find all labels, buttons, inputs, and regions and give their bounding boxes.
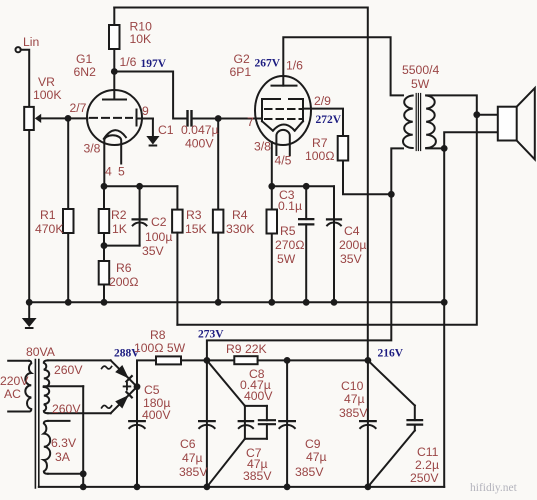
diode D2 lower rectifier [111,387,137,414]
transformer OPT primary winding [403,96,413,149]
svg-text:R1: R1 [40,208,56,222]
svg-text:R4: R4 [232,208,248,222]
node C2 top [136,183,143,190]
svg-text:385V: 385V [243,469,272,483]
capacitor C7 47u [239,406,267,439]
svg-text:3/8: 3/8 [254,140,271,154]
capacitor C11 2.2u with diagonals [368,360,422,487]
svg-text:VR: VR [38,75,55,89]
svg-text:267V: 267V [255,58,281,70]
svg-text:2.2µ: 2.2µ [415,458,439,472]
ground symbol at bus left [22,302,37,328]
svg-text:6N2: 6N2 [74,65,97,79]
node OPT secondary bottom [441,145,448,152]
node R4 ground [215,299,222,306]
resistor R6 200ohm [99,246,110,303]
svg-text:220V: 220V [0,374,29,388]
svg-text:R2: R2 [111,208,127,222]
triode U1 G1 6N2 envelope [87,90,142,145]
svg-text:80VA: 80VA [26,345,56,359]
svg-text:R6: R6 [116,261,132,275]
svg-text:C1: C1 [158,123,174,137]
wire G2 pin 2/9 to R7 [303,109,343,136]
node 273V [204,357,211,364]
G1 pin 9 internal shield bar [137,110,153,126]
wire node 1/6 of G1 to C1 [114,72,186,119]
capacitor C9 47u [279,360,295,487]
capacitor C2 100u [133,186,147,245]
svg-text:400V: 400V [185,137,214,151]
svg-text:260V: 260V [52,402,81,416]
svg-text:C10: C10 [341,379,364,393]
capacitor C4 200u [327,186,341,302]
svg-text:47µ: 47µ [182,451,203,465]
capacitor C5 180u [129,387,145,487]
wire R2/C2 bottom join [104,245,140,247]
node C1 out / R4 / G2 grid [215,115,222,122]
node C10 rail [365,484,372,491]
pentode U2 G2 6P1 envelope [255,76,311,145]
svg-text:10K: 10K [130,32,152,46]
T1 secondary 260V lower winding [44,387,49,413]
OPT core [416,94,420,151]
svg-text:+: + [122,377,132,396]
svg-text:47µ: 47µ [306,450,327,464]
node C4 ground [331,299,338,306]
svg-text:3/8: 3/8 [84,142,101,156]
node G1 grid / R1 [65,115,72,122]
resistor R9 22K [207,356,287,364]
resistor R10 [109,8,120,72]
svg-text:2/9: 2/9 [314,94,331,108]
speaker LS [498,88,535,159]
wire G2 cathode node row [272,185,334,187]
G1 anode [103,72,126,100]
node G1 cathode pins 4-5 [101,183,108,190]
wire speaker plus lead [477,114,498,116]
node C6 rail [204,484,211,491]
wire B+ riser to 273V node [207,194,391,360]
svg-text:G2: G2 [234,52,250,66]
svg-text:15K: 15K [185,222,207,236]
svg-text:AC: AC [4,387,21,401]
wire 260V bottom lead with tilde [48,405,112,413]
svg-text:2/7: 2/7 [70,101,87,115]
svg-text:5: 5 [118,165,125,179]
svg-text:C5: C5 [144,383,160,397]
svg-text:400V: 400V [142,408,171,422]
G2 grids (dashed) [265,109,301,119]
capacitor C8 0.47u [259,406,275,439]
node G1 plate junction [111,68,118,75]
wire OPT secondary bottom to speaker minus [426,132,498,148]
wire R9 output to 216V node [287,359,368,361]
svg-text:35V: 35V [142,244,165,258]
node heater/CT join [80,470,87,477]
svg-text:C4: C4 [344,224,360,238]
resistor R3 15K feedback [172,186,183,324]
wire bottom ground rail [39,486,444,488]
T1 heater 6.3V winding [44,421,83,474]
wire wiper node to G1 grid [68,117,88,119]
node bus ground left [26,299,33,306]
capacitor C10 47u [360,360,376,487]
node OPT primary bottom / R7 [388,191,395,198]
resistor R1 470K [63,118,74,302]
svg-text:hifidiy.net: hifidiy.net [470,482,518,494]
svg-text:385V: 385V [179,465,208,479]
potentiometer VR 100K [24,107,68,302]
node R5 ground [268,299,275,306]
svg-text:4: 4 [105,165,112,179]
node speaker plus [473,111,480,118]
G2 beam-forming box [262,99,303,131]
svg-text:272V: 272V [316,114,342,126]
node R6 ground [101,299,108,306]
svg-text:200Ω: 200Ω [109,275,138,289]
resistor R8 100ohm 5W [156,356,207,364]
node secondary return on bus [441,299,448,306]
svg-text:385V: 385V [339,406,368,420]
svg-text:6P1: 6P1 [230,65,252,79]
svg-text:9: 9 [142,104,149,118]
svg-text:7: 7 [247,115,254,129]
svg-text:4/5: 4/5 [275,154,292,168]
node rectifier plus 288V [134,383,141,390]
node 216V [365,357,372,364]
wire OPT primary bottom to B+ node [391,148,403,194]
G2 cathode [276,130,289,155]
svg-text:R7: R7 [312,136,328,150]
svg-text:216V: 216V [378,348,404,360]
wire rectifier output 288V riser [137,360,156,386]
T1 secondary 260V upper winding [44,360,49,387]
svg-text:100µ: 100µ [145,230,172,244]
node C5 rail [134,484,141,491]
node R2/R6 join [101,242,108,249]
svg-text:Lin: Lin [23,35,39,49]
capacitors C7/C8 parallel block diagonals [207,360,245,487]
transformer OPT secondary winding [426,96,436,149]
wire feedback line to speaker node [177,115,476,325]
svg-text:330K: 330K [226,222,254,236]
wire G1 cathode node [104,185,177,187]
svg-text:100Ω: 100Ω [305,149,334,163]
svg-text:385V: 385V [295,465,324,479]
node CT rail [80,484,87,491]
diode D1 upper rectifier [111,360,137,386]
wire ground bus [29,301,444,303]
svg-text:5500/4: 5500/4 [402,63,439,77]
svg-text:5W: 5W [411,77,430,91]
svg-text:0.1µ: 0.1µ [278,199,302,213]
transformer T1 primary 220V winding [8,361,31,412]
node C9 rail [284,484,291,491]
svg-text:250V: 250V [410,471,439,485]
node C3 top [303,183,310,190]
svg-text:G1: G1 [76,52,92,66]
svg-text:C2: C2 [151,215,167,229]
resistor R2 1K [99,186,110,245]
svg-text:C6: C6 [180,437,196,451]
svg-text:100K: 100K [33,88,61,102]
G1 grid (dashed) [90,117,132,119]
wire C1 to G2 grid pin 7 [192,118,263,120]
svg-text:1/6: 1/6 [120,55,137,69]
svg-text:C11: C11 [417,445,439,459]
resistor R4 330K [213,119,224,303]
svg-text:R8: R8 [150,328,166,342]
resistor R5 270ohm [267,186,278,302]
wire secondary ground return [443,148,445,487]
svg-text:273V: 273V [198,329,224,341]
capacitor C6 47u [199,360,215,487]
node G2 cathode 3/8 [268,183,275,190]
svg-text:1/6: 1/6 [286,59,303,73]
capacitor C1 [188,111,192,125]
input terminal Lin [16,47,30,107]
ground at G1 pin 9 [146,119,159,146]
svg-text:47µ: 47µ [344,392,365,406]
svg-text:R5: R5 [280,224,296,238]
wire 260V top lead with tilde [48,360,112,368]
node C3 ground [303,299,310,306]
T1 center tap lead [44,386,83,487]
svg-text:1K: 1K [112,222,127,236]
resistor R7 100ohm [338,136,392,194]
svg-text:270Ω: 270Ω [275,238,304,252]
svg-text:0.047µ: 0.047µ [181,123,219,137]
G2 anode and lead to 1/6 node [272,37,404,95]
svg-text:470K: 470K [35,222,63,236]
wire B+ top rail from R10 top to 216V column [114,8,367,361]
svg-text:35V: 35V [340,252,363,266]
svg-text:400V: 400V [244,389,273,403]
svg-text:3A: 3A [55,450,71,464]
G1 cathode [104,130,126,186]
node R1 ground [65,299,72,306]
svg-text:6.3V: 6.3V [51,436,77,450]
svg-text:197V: 197V [141,58,167,70]
node R9 out [284,357,291,364]
svg-text:5W: 5W [277,252,296,266]
svg-text:200µ: 200µ [339,238,366,252]
svg-text:R3: R3 [186,208,202,222]
wire OPT secondary top to speaker plus [426,95,477,114]
T1 core [35,360,38,489]
capacitor C3 0.1u [299,186,313,302]
wire G2 pin 3/8 cathode lead down [271,142,273,186]
svg-text:260V: 260V [54,363,83,377]
svg-text:C9: C9 [305,437,321,451]
svg-text:R9 22K: R9 22K [226,342,267,356]
svg-text:100Ω 5W: 100Ω 5W [134,341,186,355]
